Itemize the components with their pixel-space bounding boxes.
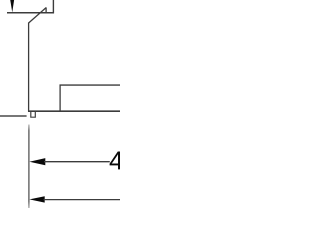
- wire: diagonal chamfer line C: [28, 8, 46, 24]
- wire: block top edge F: [60, 84, 121, 86]
- wire: top surface line A: [7, 12, 54, 14]
- wire: top-right vertical edge B: [52, 0, 54, 13]
- wire: bottom surface line G: [28, 110, 120, 112]
- dimension line K2: [44, 199, 121, 201]
- leader arrowhead (down, clipped at top): [10, 0, 14, 12]
- dimension arrowhead J (points left): [29, 158, 45, 165]
- notch / slot below surface: [31, 111, 36, 117]
- wire: left lower surface line H: [0, 115, 27, 117]
- wire: left vertical part edge E: [28, 23, 30, 112]
- dimension extension line I: [28, 125, 30, 209]
- dimension line J2: [44, 161, 110, 163]
- wire: small vertical tick D: [45, 7, 47, 13]
- dimension text 4 (clipped at right edge): [110, 152, 123, 170]
- wire: block left edge F2: [59, 85, 61, 112]
- dimension arrowhead K (points left): [29, 196, 44, 202]
